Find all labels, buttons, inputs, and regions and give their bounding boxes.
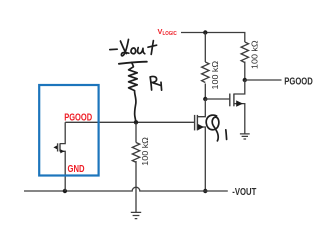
handwritten label R1 <box>150 77 151 90</box>
handwritten node bar <box>119 62 147 64</box>
handwritten resistor R1 zigzag <box>129 63 138 123</box>
svg-text:VLOGIC: VLOGIC <box>158 27 177 37</box>
transistor Q2 drain <box>234 80 245 94</box>
wire VLOGIC top rail <box>181 33 245 43</box>
wire main horizontal (PGOOD of U1 to Q1 gate) <box>65 121 195 123</box>
svg-text:100 kΩ: 100 kΩ <box>141 137 150 166</box>
handwritten annotations <box>110 39 227 140</box>
wire left branch lower <box>204 84 206 100</box>
node PGOOD junction dot <box>243 78 247 82</box>
svg-text:100 kΩ: 100 kΩ <box>251 40 260 69</box>
transistor Q1 drain <box>197 99 205 117</box>
node GND junction dot <box>63 189 67 193</box>
transistor Q1 gate bar <box>194 115 196 130</box>
IC U1 internal FET gate arrow <box>53 146 57 150</box>
transistor Q1 channel bar <box>196 115 198 130</box>
wire center branch upper <box>135 122 137 142</box>
handwritten V of -Vout <box>120 41 126 54</box>
transistor Q2 source arrow <box>236 100 243 106</box>
IC U1 blue box <box>39 85 98 176</box>
resistor 100k center (R2) <box>132 143 139 163</box>
wire left branch upper <box>204 33 206 63</box>
transistor Q2 channel bar <box>233 94 235 107</box>
wire center branch lower through hop to ground <box>135 161 137 212</box>
transistor Q1 source arrow <box>198 124 204 130</box>
svg-text:100 kΩ: 100 kΩ <box>211 61 220 90</box>
node VLOGIC junction dot <box>203 30 207 34</box>
IC U1 internal FET drain path <box>60 122 65 143</box>
svg-text:PGOOD: PGOOD <box>284 77 313 88</box>
ground below Q2 <box>240 134 250 139</box>
svg-text:GND: GND <box>68 164 85 175</box>
ground below center branch <box>131 212 141 218</box>
transistor Q1 source <box>197 127 205 191</box>
transistor Q2 source <box>234 104 245 134</box>
node gate junction dot <box>203 97 207 101</box>
handwritten u of -Vout <box>138 48 145 54</box>
handwritten label Q1 circle <box>206 115 219 141</box>
node R1 bottom junction dot <box>134 120 138 124</box>
svg-text:PGOOD: PGOOD <box>64 113 92 124</box>
wire right branch lower <box>244 62 246 81</box>
wire PGOOD out <box>245 79 282 81</box>
IC U1 internal FET gate bar <box>57 143 59 151</box>
handwritten minus of -Vout <box>110 48 117 50</box>
IC U1 internal FET channel bar <box>59 143 61 151</box>
svg-text:-VOUT: -VOUT <box>232 187 257 198</box>
node Q1 source junction dot <box>203 189 207 193</box>
IC U1 internal FET source path <box>60 151 65 191</box>
wire bottom -VOUT rail with hop <box>24 187 228 191</box>
handwritten t of -Vout <box>151 41 153 55</box>
transistor Q2 gate bar <box>229 94 231 107</box>
resistor 100k left (R3) <box>202 62 209 83</box>
handwritten label 1 of Q1 <box>225 130 228 140</box>
IC U1 internal FET source arrow <box>60 149 64 153</box>
transistor Q2 gate wire <box>205 98 229 100</box>
handwritten o of -Vout <box>131 48 136 54</box>
resistor 100k right (R4) <box>241 42 248 63</box>
